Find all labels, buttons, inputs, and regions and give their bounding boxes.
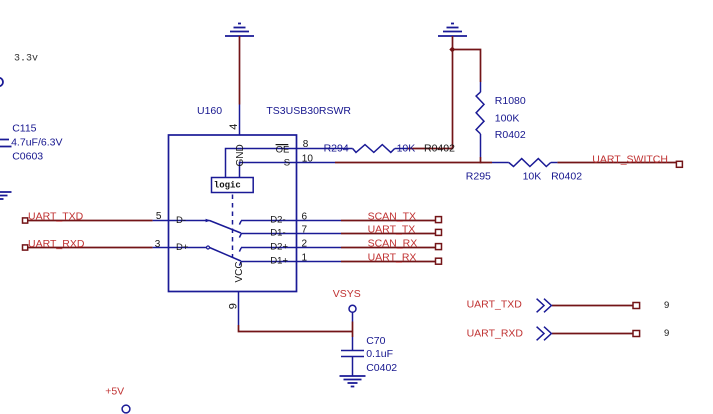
svg-text:3.3v: 3.3v [14,53,38,64]
svg-text:UART_RXD: UART_RXD [28,238,85,250]
svg-text:UART_TXD: UART_TXD [467,298,523,310]
svg-text:logic: logic [214,180,241,190]
svg-text:TS3USB30RSWR: TS3USB30RSWR [266,105,351,117]
svg-text:SCAN_TX: SCAN_TX [368,211,416,223]
svg-text:1: 1 [302,253,308,264]
svg-text:D2-: D2- [270,215,285,226]
svg-text:6: 6 [302,212,308,223]
svg-text:D1-: D1- [270,228,285,239]
svg-text:UART_TXD: UART_TXD [28,210,84,222]
svg-text:5: 5 [156,211,162,222]
svg-text:10K: 10K [523,170,542,182]
svg-text:2: 2 [302,239,308,250]
svg-text:C70: C70 [366,335,385,347]
svg-text:C0402: C0402 [366,362,397,374]
svg-text:SCAN_RX: SCAN_RX [368,238,418,250]
svg-text:C0603: C0603 [12,150,43,162]
svg-text:R0402: R0402 [424,143,455,155]
svg-text:C115: C115 [12,123,36,135]
svg-text:4: 4 [228,124,240,130]
svg-text:+5V: +5V [105,385,124,397]
svg-text:R0402: R0402 [551,170,582,182]
svg-text:8: 8 [303,139,309,150]
svg-text:10K: 10K [397,142,416,154]
svg-text:0.1uF: 0.1uF [366,348,393,360]
svg-text:9: 9 [228,303,240,309]
svg-text:D1+: D1+ [270,256,288,267]
svg-text:D+: D+ [176,242,189,253]
svg-text:R1080: R1080 [495,95,526,107]
svg-text:D-: D- [176,215,186,226]
svg-text:3: 3 [155,239,161,250]
svg-text:UART_RX: UART_RX [368,252,417,264]
svg-text:UART_RXD: UART_RXD [467,328,524,340]
svg-text:R0402: R0402 [495,129,526,141]
svg-text:7: 7 [302,225,308,236]
svg-text:S: S [284,157,290,168]
svg-text:10: 10 [302,153,314,164]
svg-text:100K: 100K [495,112,520,124]
svg-text:UART_TX: UART_TX [368,224,416,236]
svg-text:VCC: VCC [234,261,245,282]
svg-text:4.7uF/6.3V: 4.7uF/6.3V [11,136,62,148]
svg-text:9: 9 [664,300,669,311]
svg-text:GND: GND [235,144,246,166]
svg-text:9: 9 [664,328,669,339]
svg-text:R294: R294 [324,142,349,154]
svg-text:R295: R295 [466,170,491,182]
svg-text:D2+: D2+ [270,242,288,253]
svg-text:VSYS: VSYS [333,288,361,300]
svg-text:OE: OE [276,144,290,155]
svg-text:U160: U160 [197,105,222,117]
svg-text:UART_SWITCH: UART_SWITCH [592,154,668,166]
